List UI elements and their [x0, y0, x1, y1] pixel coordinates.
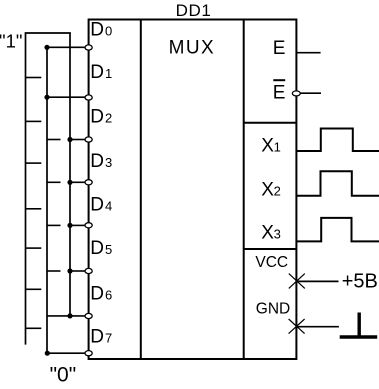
terminal circle D6: [85, 313, 92, 318]
wire to D3: [70, 181, 85, 183]
junction dot D0: [44, 45, 49, 50]
wire to D7: [47, 352, 85, 354]
junction dot D2: [67, 137, 72, 142]
terminal circle D4: [85, 223, 92, 228]
wire VCC: [296, 280, 338, 282]
terminal circle D0: [85, 45, 92, 50]
svg-text:DD1: DD1: [176, 1, 212, 20]
waveform X1: [297, 129, 379, 152]
terminal circle D1: [85, 95, 92, 100]
wire to D6: [47, 315, 85, 317]
svg-text:"1": "1": [0, 30, 22, 51]
svg-text:D: D: [90, 151, 104, 172]
svg-text:X: X: [261, 223, 274, 244]
stub tick 4 on left rail: [26, 208, 42, 210]
svg-text:D: D: [90, 238, 104, 259]
svg-text:X: X: [261, 135, 274, 156]
waveform X3: [297, 218, 379, 242]
divider X/VCC sections: [244, 248, 297, 250]
svg-text:2: 2: [274, 184, 281, 199]
divider E/X sections: [244, 122, 297, 124]
pin wire E-bar: [301, 92, 322, 94]
stub on middle rail row D5: [47, 270, 61, 272]
svg-text:6: 6: [105, 287, 112, 302]
svg-text:4: 4: [105, 199, 112, 214]
stub tick 7 on left rail: [26, 327, 42, 329]
bus middle rail: [46, 47, 48, 353]
svg-text:E: E: [273, 83, 286, 104]
svg-text:+5B: +5B: [342, 271, 378, 293]
svg-text:D: D: [90, 327, 104, 348]
stub on middle rail row D2: [47, 139, 61, 141]
wire to D2: [70, 139, 85, 141]
svg-text:D: D: [90, 62, 104, 83]
svg-text:GND: GND: [256, 300, 290, 317]
junction dot D3: [67, 180, 72, 185]
svg-text:2: 2: [105, 110, 112, 125]
waveform X2: [297, 171, 379, 195]
stub on middle rail row D4: [47, 224, 61, 226]
ground symbol stem: [358, 313, 361, 337]
IC right column divider: [243, 20, 245, 360]
svg-text:X: X: [261, 180, 274, 201]
stub on middle rail row D3: [47, 181, 61, 183]
svg-text:E: E: [273, 38, 286, 59]
junction dot D5: [67, 268, 72, 273]
terminal circle D2: [85, 137, 92, 142]
svg-text:5: 5: [105, 242, 112, 257]
stub tick 1 on left rail: [26, 77, 42, 79]
stub tick 5 on left rail: [26, 247, 42, 249]
bus right rail: [69, 33, 71, 317]
svg-text:D: D: [90, 106, 104, 127]
svg-text:3: 3: [274, 227, 281, 242]
inversion circle E-bar: [292, 91, 300, 96]
junction dot D7: [45, 351, 50, 356]
ground symbol bar: [340, 335, 378, 338]
stub tick 3 on left rail: [26, 162, 42, 164]
svg-text:D: D: [90, 283, 104, 304]
overbar of E-bar: [273, 79, 285, 81]
bus left rail: [25, 33, 27, 345]
svg-text:1: 1: [105, 66, 112, 81]
wire to D4: [70, 224, 85, 226]
terminal circle D3: [85, 180, 92, 185]
svg-text:1: 1: [274, 139, 281, 154]
wire to D0: [47, 46, 85, 48]
wire GND: [297, 326, 339, 328]
junction dot D4: [67, 223, 72, 228]
svg-text:7: 7: [105, 331, 112, 346]
stub tick 2 on left rail: [26, 120, 42, 122]
svg-text:0: 0: [105, 23, 112, 38]
svg-text:"0": "0": [50, 364, 77, 387]
svg-text:3: 3: [105, 155, 112, 170]
pin wire E: [297, 52, 321, 54]
svg-text:D: D: [90, 19, 104, 40]
no-connect cross VCC: [289, 274, 305, 289]
svg-text:VCC: VCC: [255, 254, 288, 271]
no-connect cross GND: [289, 319, 305, 334]
stub tick 6 on left rail: [26, 288, 42, 290]
junction dot D1: [44, 95, 49, 100]
IC left column divider: [140, 20, 142, 360]
junction dot D6: [67, 313, 72, 318]
IC DD1 outline: [89, 20, 297, 360]
wire to D1: [47, 96, 85, 98]
wire to D5: [70, 270, 85, 272]
svg-text:MUX: MUX: [169, 38, 215, 59]
bus top rail: [25, 32, 71, 34]
terminal circle D7: [85, 351, 92, 356]
svg-text:D: D: [90, 195, 104, 216]
terminal circle D5: [85, 268, 92, 273]
